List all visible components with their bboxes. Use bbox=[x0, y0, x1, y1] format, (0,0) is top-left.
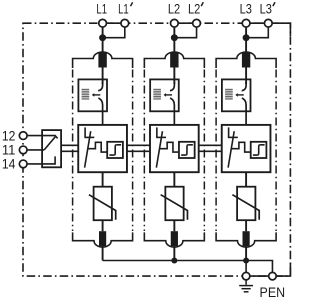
svg-text:PEN: PEN bbox=[260, 284, 286, 300]
svg-text:L2: L2 bbox=[168, 1, 181, 17]
svg-text:L2: L2 bbox=[188, 1, 201, 17]
svg-text:L1: L1 bbox=[118, 1, 129, 17]
svg-text:14: 14 bbox=[2, 156, 16, 172]
svg-text:L3: L3 bbox=[240, 1, 253, 17]
svg-text:L3: L3 bbox=[260, 1, 273, 17]
svg-text:L1: L1 bbox=[96, 1, 107, 17]
